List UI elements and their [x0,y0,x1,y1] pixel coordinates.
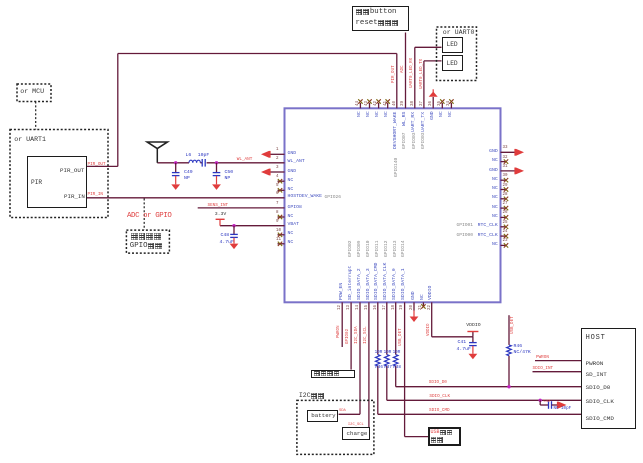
no-connect right pin 26 [501,215,509,219]
no-connect right pin 27 [501,206,509,210]
no-connect top pin 43 [367,99,371,108]
no-connect top pin 34 [449,99,453,108]
net label VDDIO vertical on wire [427,323,431,336]
wire ADC down to pin39 [405,33,407,109]
net label PWRON at HOST [536,356,549,360]
wire pin17 SDIO_DATA_CLK upper segment [386,302,388,354]
net label I2C_SCL vertical [364,326,368,344]
net label I2C_SDA vertical [355,326,359,344]
wire PIR_OUT down to pin40 DEVSHORT_WAKE [396,54,398,109]
net label SENS_INT [208,204,229,208]
resistor R38 [393,355,398,366]
value L6 [186,154,192,159]
ground C49 [171,184,180,190]
net label I2C tiny at charge [348,424,364,428]
net label USB_DET vertical pin19 [399,328,403,346]
no-connect right pin 30 [501,178,509,182]
box or UART0 dashed [437,27,477,81]
port arrow SDIO_CLK cap [557,402,567,409]
box or MCU dashed [17,84,51,102]
wire 3V3 to pin9 VBAT [220,225,285,227]
wire SDIO_INT stub to HOST [533,371,582,373]
wire SDIO_D0 from R38 to HOST [396,366,582,387]
designator C42 tiny [544,401,551,405]
values 10R resistors [0,0,643,1]
capacitor C50 [213,163,221,184]
wire pin15 down to charge box [368,302,370,427]
capacitor C49 [172,163,180,184]
box power-on control [311,370,355,378]
box PIR [27,156,88,208]
HOST pin labels [0,0,643,1]
junction C49 tap [174,161,177,164]
alt function labels grey bottom [0,0,643,1]
no-connect top pin 44 [358,99,362,108]
capacitor C42 NC 10pF on SDIO_CLK [540,400,557,409]
no-connect right pin 25 [501,225,509,229]
box or UART1 dashed [10,130,108,218]
ground C41 [469,354,478,360]
no-connect right pin 28 [501,197,509,201]
box USB detect [428,427,461,446]
capacitor C48 [230,226,238,244]
value R46 NC/47K [0,0,643,1]
net label SDIO_CLK [429,395,450,399]
box LED1 [442,37,464,53]
value 10pF [198,154,210,159]
designators R36 R37 R38 [0,0,643,1]
no-connect top pin 41 [386,99,390,108]
wire PWRON stub from pin12 [341,302,343,347]
no-connect right pin 24 [501,234,509,238]
net label UART0_LED_TX [420,58,424,88]
label ADC or GPIO [127,213,171,220]
net label UART0_LED_RX [410,57,414,87]
net label WL_ANT [237,158,252,162]
capacitor C41 [469,337,477,354]
pin numbers top side [0,0,643,1]
no-connect right pin 23 [501,243,509,247]
alt function labels grey top [0,0,643,1]
power symbol 3.3V [216,219,225,226]
wire PWRON stub to HOST [535,360,581,362]
wire SDIO_CMD from R36 to HOST [378,366,582,414]
wire pin19 down to USB detect box [405,302,428,436]
box HOST [581,328,636,428]
port arrow GND pin3 [261,169,271,176]
value C49 NP [0,0,643,1]
pin numbers bottom side [0,0,643,1]
no-connect pin 8 [278,215,285,219]
ground arrow pin20 GND [410,302,419,322]
box LED2 [442,55,464,71]
wire USB_DET stub [508,315,510,387]
box battery [307,410,338,423]
pin 1 GND stub [270,153,285,155]
wire pin18 SDIO_DATA_0 upper segment [395,302,397,354]
resistor R37 [385,355,390,366]
net label I2C tiny at battery [339,410,346,414]
box doorbell button [352,6,409,31]
resistor R46 [507,345,512,356]
value C48 4.7uF [0,0,643,1]
no-connect bottom pin 21 [421,302,425,308]
port arrow GND pin31 [514,168,524,175]
power symbol VDDIO [467,331,478,332]
wire VDDIO from pin22 [432,302,473,337]
net label PIR_IN at PIR [88,193,103,197]
wire UART0_LED_TX down to pin37 [424,61,442,108]
net label SDIO_INT at HOST [533,367,554,371]
net label ADC vertical [401,65,405,73]
no-connect right pin 32 [501,159,509,163]
wire pin14 down to battery [339,302,360,414]
box analog GPIO devices dashed [126,230,169,253]
inductor L6 [189,160,200,163]
net label USB_DET on R46 [511,316,515,334]
label VDDIO power [466,324,480,329]
wire pin16 SDIO_DATA_CMD upper segment [377,302,379,354]
wire UART0_LED_RX down to pin38 [415,47,442,108]
no-connect pin 10 [278,233,285,237]
wire pin13 to power-on-control box [350,302,352,369]
pin 3 GND stub [270,171,285,173]
wire PIR_IN to pin6 HOSTDEV_WAKE [87,197,285,199]
pin 33 GND stub [501,151,518,153]
op-amp U1 module body (44-pin WiFi module) [285,108,501,302]
net label PWRON vertical [337,325,341,338]
no-connect top pin 35 [440,99,444,108]
no-connect pin 5 [278,188,285,192]
alt function labels grey right [0,0,643,1]
net label SDIO_D0 [429,381,447,385]
ground C48 [230,243,239,249]
resistor R36 [376,355,381,366]
net label PIR_OUT at PIR [88,163,106,167]
box I2C devices dashed [297,400,374,454]
wire PIR_OUT net [87,54,397,167]
label 3.3V [215,213,227,218]
net label SDIO_CMD [429,409,450,413]
junction R46 to SDIO_D0 [507,385,510,388]
power arrow up on pin36 GND [429,89,438,108]
wire SDIO_CLK from R37 to HOST [387,366,582,400]
net label GPIO02 vertical [346,328,350,343]
port arrow GND pin1 [261,151,271,158]
pin numbers right side [0,0,643,1]
value C41 4.7uF [0,0,643,1]
ground C50 [212,184,221,190]
capacitor 10pF series [200,159,205,167]
pin names bottom side [0,0,643,1]
no-connect pin 11 [278,242,285,246]
pin names right side [0,0,643,1]
pin names top side [0,0,643,1]
pin numbers left side [0,0,643,1]
junction C50 tap [215,161,218,164]
net label PIR_OUT vertical [392,65,396,83]
no-connect top pin 42 [376,99,380,108]
wire SENS_INT to pin7 GPIO8 [198,207,285,209]
no-connect pin 4 [278,179,285,183]
junction C48 tap [232,224,235,227]
label I2C devices [299,393,325,400]
box charge [342,427,370,440]
pin names left side [0,0,643,1]
wire WL_ANT pin2 [157,162,284,164]
value C50 NP [0,0,643,1]
value NC 10pF cap [554,407,572,411]
junction SDIO_CLK cap tap [539,399,542,402]
antenna ANT1 [147,142,167,163]
alt function label grey GPIO26 [325,196,342,201]
port arrow GND pin33 [514,149,524,156]
pin 31 GND stub [501,170,518,172]
no-connect right pin 29 [501,187,509,191]
